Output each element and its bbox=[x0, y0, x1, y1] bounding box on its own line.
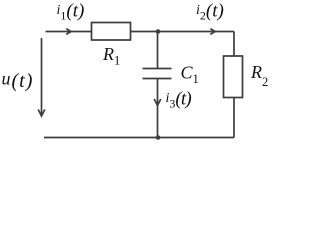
wire right vertical lower bbox=[233, 98, 235, 138]
wire right vertical upper bbox=[233, 32, 235, 57]
node junction bottom bbox=[156, 135, 161, 140]
svg-text:R1: R1 bbox=[102, 44, 120, 68]
wire R1 to top-right corner bbox=[131, 31, 235, 33]
current arrow i3 head bbox=[154, 99, 161, 106]
capacitor C1 plates bbox=[143, 68, 172, 70]
wire bottom bbox=[44, 137, 234, 139]
node junction top bbox=[156, 29, 161, 34]
voltage arrow u(t) bbox=[41, 38, 43, 115]
svg-text:C1: C1 bbox=[181, 63, 199, 87]
svg-text:i3(t): i3(t) bbox=[166, 89, 192, 111]
wire top-left segment bbox=[46, 31, 92, 33]
wire capacitor branch upper bbox=[157, 32, 159, 69]
wire capacitor branch lower bbox=[157, 79, 159, 138]
svg-text:i2(t): i2(t) bbox=[196, 1, 224, 23]
current arrow i2 head bbox=[210, 29, 215, 35]
resistor R2 bbox=[224, 56, 243, 98]
current arrow i1 head bbox=[66, 29, 71, 35]
svg-text:u(t): u(t) bbox=[2, 69, 34, 93]
svg-text:i1(t): i1(t) bbox=[57, 1, 85, 23]
svg-text:R2: R2 bbox=[250, 62, 268, 89]
resistor R1 bbox=[92, 23, 131, 41]
